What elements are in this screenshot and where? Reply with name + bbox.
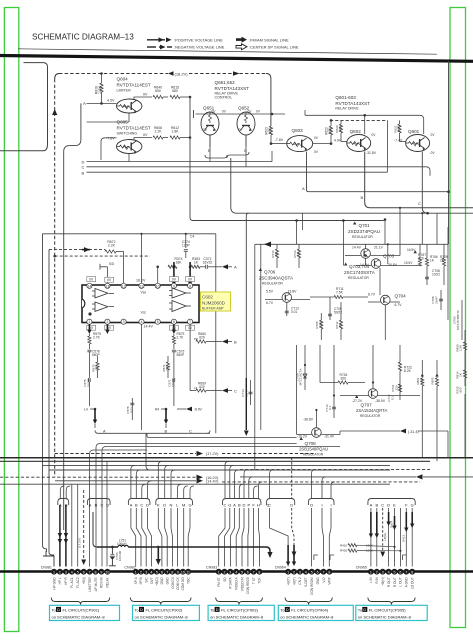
svg-text:2: 2 <box>224 570 226 574</box>
small corner stubs near CN965 <box>314 555 407 560</box>
svg-text:HP L: HP L <box>58 577 62 584</box>
svg-text:CN983: CN983 <box>206 565 217 569</box>
svg-text:C: C <box>189 429 192 434</box>
resistor R672 2.2K <box>105 240 124 267</box>
svg-text:A: A <box>370 503 373 508</box>
connector CN983 <box>206 565 262 594</box>
capacitor C713 0.1 <box>325 398 336 418</box>
svg-text:SD: SD <box>223 577 227 582</box>
svg-text:Q703,704: Q703,704 <box>349 264 370 269</box>
E D bracket under Q651/652 <box>205 135 473 436</box>
svg-text:0V: 0V <box>431 151 436 155</box>
feeder wires into letter bundle <box>90 444 340 567</box>
svg-text:DT06: DT06 <box>453 316 457 324</box>
svg-text:MTZJ16CTA: MTZJ16CTA <box>299 369 303 386</box>
small SD symbol above pin 13 <box>100 262 115 286</box>
svg-text:25/47: 25/47 <box>244 389 248 397</box>
right green border column <box>450 8 466 628</box>
svg-text:7: 7 <box>89 570 91 574</box>
svg-text:6: 6 <box>83 570 85 574</box>
transistor Q602 <box>334 129 377 155</box>
svg-text:on SCHEMATIC DIAGRAM–8: on SCHEMATIC DIAGRAM–8 <box>358 614 412 619</box>
svg-text:COM DI: COM DI <box>171 577 175 589</box>
svg-text:Q603: Q603 <box>292 128 304 133</box>
wire Q603 output to R622 <box>313 143 331 145</box>
bold arrows out of bottom pins <box>88 324 90 331</box>
resistor R571 680 <box>162 356 170 378</box>
svg-text:on SCHEMATIC DIAGRAM–8: on SCHEMATIC DIAGRAM–8 <box>135 614 189 619</box>
svg-text:C: C <box>224 503 227 508</box>
yellow highlight label C602 NJM2060D BUFFER AMP <box>201 292 231 311</box>
svg-text:4.5V: 4.5V <box>107 99 115 103</box>
bold arrow feeds to CN901 pins 2,3 <box>58 505 68 567</box>
right edge vertical from top line to regulator frame <box>448 61 450 244</box>
resistor R606 100K <box>95 74 104 104</box>
svg-text:7: 7 <box>253 570 255 574</box>
svg-text:-31.4V: -31.4V <box>324 435 335 439</box>
dashed bus (17.2V) <box>55 451 314 456</box>
svg-text:S-DET: S-DET <box>304 577 308 587</box>
resistors R714 R713 <box>271 244 301 268</box>
svg-text:I: I <box>321 503 322 508</box>
svg-text:Q604: Q604 <box>117 77 129 82</box>
svg-text:+B(H): +B(H) <box>383 533 387 541</box>
svg-text:2.7K: 2.7K <box>93 336 101 340</box>
svg-text:1: 1 <box>88 320 90 324</box>
svg-text:on SCHEMATIC DIAGRAM–8: on SCHEMATIC DIAGRAM–8 <box>52 614 106 619</box>
svg-text:D: D <box>243 503 246 508</box>
svg-text:REGULATOR: REGULATOR <box>352 235 373 239</box>
svg-text:7: 7 <box>166 570 168 574</box>
svg-text:RELAY DRIVE: RELAY DRIVE <box>335 107 359 111</box>
svg-text:1: 1 <box>218 570 220 574</box>
bus solid lines <box>0 461 430 470</box>
svg-text:CN964: CN964 <box>275 565 286 569</box>
svg-text:30.8V: 30.8V <box>388 263 398 267</box>
svg-text:O: O <box>310 503 313 508</box>
svg-text:MTZJ5.6BCTA: MTZJ5.6BCTA <box>456 310 460 330</box>
wire node B to right edge <box>365 152 473 208</box>
electrolytic cap C708 + rotated label INTLZ/MSCTA <box>431 290 462 340</box>
node letters A B C D E F G above CN965 <box>370 503 414 508</box>
Q604 emitter stub to ground bus <box>128 113 130 122</box>
svg-text:FL CIRCUIT(CP902): FL CIRCUIT(CP902) <box>146 607 183 612</box>
svg-text:E: E <box>393 503 396 508</box>
transistor Q707 <box>340 383 420 418</box>
svg-text:B: B <box>82 171 85 176</box>
svg-text:14.4V: 14.4V <box>352 246 362 250</box>
Q706 labels <box>259 268 294 286</box>
transistor Q701 <box>345 244 400 258</box>
svg-text:R805: R805 <box>431 377 435 384</box>
svg-text:S/C: S/C <box>145 577 149 583</box>
legend negative voltage line <box>147 45 225 50</box>
Q701 regulator labels <box>348 222 380 240</box>
svg-text:4.9V: 4.9V <box>334 138 342 142</box>
destination box CP904 <box>278 605 353 620</box>
svg-text:VIDEO IN: VIDEO IN <box>240 577 244 592</box>
svg-text:-8.9V: -8.9V <box>194 408 203 412</box>
rotated labels S414 S413 near CN965 <box>390 521 406 552</box>
svg-text:6: 6 <box>317 570 319 574</box>
svg-text:L IN: L IN <box>369 577 373 583</box>
dashed feed and drop at letter D of CN964 <box>292 458 297 557</box>
node group ABCD <box>130 503 149 508</box>
dashed negative line vertical trunk <box>54 79 56 477</box>
svg-text:7: 7 <box>323 570 325 574</box>
svg-text:FL CIRCUIT(CP905): FL CIRCUIT(CP905) <box>369 607 406 612</box>
svg-text:3: 3 <box>229 570 231 574</box>
destination box CP901 <box>50 605 120 620</box>
svg-text:R4: R4 <box>155 408 159 412</box>
dashed bus (16.2V) <box>0 475 219 480</box>
svg-text:A: A <box>302 186 305 191</box>
svg-text:620: 620 <box>199 336 205 340</box>
svg-text:6: 6 <box>161 570 163 574</box>
left green border column <box>4 8 18 632</box>
svg-text:4: 4 <box>235 570 237 574</box>
resistor R622 6.8K <box>325 120 333 143</box>
connector CN982 <box>124 565 191 590</box>
bus lines D C B from left <box>82 151 431 176</box>
group hat connectors <box>58 499 415 506</box>
node group CGABDPFH <box>224 503 260 508</box>
capacitor C709 50/22 <box>328 297 342 320</box>
svg-text:2: 2 <box>293 570 295 574</box>
svg-text:8: 8 <box>411 570 413 574</box>
svg-text:3: 3 <box>145 570 147 574</box>
svg-text:8: 8 <box>171 570 173 574</box>
svg-text:0V: 0V <box>143 93 148 97</box>
svg-text:CN 2: CN 2 <box>298 577 302 584</box>
svg-text:16.5V: 16.5V <box>407 248 416 252</box>
svg-text:SCHEMATIC DIAGRAM–13: SCHEMATIC DIAGRAM–13 <box>32 33 134 42</box>
svg-text:Q704: Q704 <box>395 294 407 299</box>
destination box CP905 <box>356 605 427 620</box>
capacitor C374 120P <box>140 233 194 258</box>
svg-text:0.1: 0.1 <box>328 406 332 411</box>
IC pins bottom row 1..7 <box>87 319 193 324</box>
svg-text:IF DATA: IF DATA <box>229 576 233 589</box>
drops CN965 letters to pins <box>371 508 412 567</box>
svg-text:0.01: 0.01 <box>291 310 297 314</box>
svg-text:4: 4 <box>71 570 73 574</box>
svg-text:(17.2V): (17.2V) <box>206 452 219 456</box>
svg-text:C: C <box>234 388 237 393</box>
svg-text:HP GND: HP GND <box>52 577 56 590</box>
svg-text:RVTDTA143XST: RVTDTA143XST <box>215 86 250 91</box>
svg-text:3: 3 <box>65 570 67 574</box>
transistor Q652 <box>237 106 261 136</box>
svg-text:16V22: 16V22 <box>203 261 213 265</box>
up arrow on dashed trunk <box>52 109 57 115</box>
svg-text:Q601: Q601 <box>408 129 420 134</box>
svg-text:6.7V: 6.7V <box>266 301 274 305</box>
svg-text:-7.6V: -7.6V <box>106 137 115 141</box>
bold arrows into CN964 pins 1,2 <box>287 545 289 563</box>
svg-text:OVT: OVT <box>150 577 154 584</box>
svg-text:82: 82 <box>338 323 342 327</box>
svg-text:A GND: A GND <box>405 577 409 588</box>
svg-text:8: 8 <box>95 570 97 574</box>
wire from top line going off page left <box>0 63 48 151</box>
svg-text:6.8K: 6.8K <box>338 126 342 132</box>
svg-text:2: 2 <box>140 570 142 574</box>
straight drops CN964 letters <box>270 508 331 567</box>
svg-text:AF MUTE: AF MUTE <box>94 577 98 591</box>
svg-text:3: 3 <box>123 320 125 324</box>
svg-text:TCK: TCK <box>258 576 262 583</box>
legend FM/AM signal line <box>236 37 289 43</box>
svg-text:G: G <box>228 503 231 508</box>
svg-text:RDS IN: RDS IN <box>100 577 104 589</box>
svg-text:A: A <box>130 503 133 508</box>
svg-text:5: 5 <box>394 570 396 574</box>
svg-text:L4: L4 <box>84 408 88 412</box>
svg-text:8: 8 <box>189 284 191 288</box>
svg-text:6.8K: 6.8K <box>328 127 332 134</box>
svg-text:B: B <box>375 503 378 508</box>
svg-text:2SA1534AQRTA: 2SA1534AQRTA <box>356 408 387 413</box>
svg-text:21.1V: 21.1V <box>374 246 384 250</box>
svg-text:(14.4V): (14.4V) <box>206 480 219 484</box>
Q605 output wire with resistors R608/R612 <box>134 126 191 140</box>
svg-text:2.2K: 2.2K <box>155 130 163 134</box>
thick full-width bus line <box>0 457 473 459</box>
svg-text:3: 3 <box>382 570 384 574</box>
legend positive voltage line <box>147 37 223 42</box>
svg-text:D: D <box>387 503 390 508</box>
vertical feeders on right regulators <box>295 207 437 340</box>
svg-text:on SCHEMATIC DIAGRAM–8: on SCHEMATIC DIAGRAM–8 <box>210 614 264 619</box>
svg-text:R410: R410 <box>340 543 348 547</box>
connector CN981 <box>41 565 111 592</box>
svg-text:D: D <box>286 608 289 612</box>
svg-text:9: 9 <box>173 284 175 288</box>
svg-text:9: 9 <box>100 570 102 574</box>
bold arrows on CN965 feed wires <box>370 512 372 535</box>
svg-text:6: 6 <box>247 570 249 574</box>
svg-text:Q651,652: Q651,652 <box>215 80 236 85</box>
svg-text:100K: 100K <box>98 85 102 94</box>
svg-text:H: H <box>257 503 260 508</box>
svg-text:39: 39 <box>274 252 278 256</box>
transistor Q651 <box>201 106 227 136</box>
svg-text:680: 680 <box>165 365 169 370</box>
svg-text:LIMITTER: LIMITTER <box>88 577 92 592</box>
svg-text:+B(I): +B(I) <box>82 577 86 584</box>
bold arrow from feed bus into CN982 pin 5 <box>157 547 159 559</box>
svg-text:Q602: Q602 <box>350 129 362 134</box>
wire node C joining bus <box>422 152 427 214</box>
svg-text:I: I <box>330 503 331 508</box>
svg-text:B: B <box>234 339 237 344</box>
svg-text:10/22: 10/22 <box>432 273 440 277</box>
svg-text:A: A <box>83 101 86 106</box>
bold arrows into top pins <box>173 262 175 283</box>
resistor R573 2.7K <box>172 332 184 349</box>
svg-text:11: 11 <box>186 570 190 574</box>
svg-text:B: B <box>238 503 241 508</box>
resistors R801 / R805 (triangle marked) <box>416 360 439 461</box>
svg-text:2SD2374PQAU: 2SD2374PQAU <box>348 229 380 234</box>
svg-text:5: 5 <box>241 570 243 574</box>
bus corner feed wires <box>60 461 335 498</box>
svg-text:-7.8V: -7.8V <box>275 138 284 142</box>
resistor R726 820 <box>320 373 365 384</box>
svg-text:VIDEO A: VIDEO A <box>235 576 239 590</box>
svg-text:G: G <box>411 503 414 508</box>
svg-text:5.5V: 5.5V <box>266 290 274 294</box>
svg-text:6.8K: 6.8K <box>268 127 272 134</box>
inductor L751 100uH + thick feed bus <box>93 512 273 558</box>
svg-text:820: 820 <box>341 376 347 380</box>
destination box CP903 <box>208 605 274 620</box>
transistor Q604 RVTDTA114EST LIMITER <box>117 77 151 114</box>
svg-text:K: K <box>157 503 160 508</box>
svg-text:2.2K: 2.2K <box>108 244 116 248</box>
svg-text:C: C <box>101 503 104 508</box>
svg-text::POSITIVE VOLTAGE LINE: :POSITIVE VOLTAGE LINE <box>174 38 223 43</box>
arrow on regulator top rail <box>264 242 271 247</box>
regulator block outer frame <box>255 227 448 470</box>
svg-text:560P: 560P <box>92 353 101 357</box>
svg-text:18K: 18K <box>175 261 182 265</box>
svg-text:3: 3 <box>299 570 301 574</box>
svg-text:D: D <box>146 503 149 508</box>
svg-text:-16.2V: -16.2V <box>297 435 308 439</box>
svg-text:6.8K: 6.8K <box>397 126 401 132</box>
svg-text:S/D: S/D <box>109 262 115 266</box>
svg-text:2SB1548PQAU: 2SB1548PQAU <box>299 447 328 452</box>
svg-text:2: 2 <box>376 570 378 574</box>
svg-text:(18.2V): (18.2V) <box>175 71 189 76</box>
svg-text:A: A <box>234 265 237 270</box>
capacitor CT13 0.01 <box>285 302 299 316</box>
dashed signal line above IC with arrow <box>49 247 150 257</box>
svg-text:1: 1 <box>135 570 137 574</box>
svg-text:R IN: R IN <box>375 577 379 584</box>
node group KDNLMG <box>157 503 192 508</box>
svg-text:(-31.4): (-31.4) <box>408 430 419 434</box>
svg-text:BUFFER AMP: BUFFER AMP <box>202 306 224 310</box>
svg-text:SP A: SP A <box>134 576 138 584</box>
svg-text:11: 11 <box>140 284 144 288</box>
svg-text:S413: S413 <box>402 535 406 542</box>
svg-text:C602: C602 <box>202 294 213 299</box>
svg-text:+B(H): +B(H) <box>381 577 385 585</box>
wire node A to regulator right column <box>307 152 449 192</box>
transistor Q605 RVTDTA114EST SWITCHING <box>101 120 151 161</box>
svg-text:RELAY: RELAY <box>106 576 110 587</box>
svg-text:6: 6 <box>173 320 175 324</box>
svg-text:B: B <box>95 503 98 508</box>
svg-text:COM CK: COM CK <box>176 576 180 590</box>
node letters C D O I I above CN964/965 <box>266 503 331 508</box>
svg-text:12: 12 <box>122 284 126 288</box>
bus line (14.4V) <box>55 478 420 483</box>
bus lower solid lines <box>0 470 473 485</box>
svg-text:C: C <box>381 503 384 508</box>
svg-text:P: P <box>247 503 250 508</box>
dashed 18.2V line across top <box>59 73 266 75</box>
svg-text:Q707: Q707 <box>361 403 373 408</box>
resistor R374 18K <box>168 257 183 268</box>
transistor Q708 <box>297 410 340 456</box>
svg-text:NJM2060D: NJM2060D <box>202 300 226 305</box>
svg-text:16.2V: 16.2V <box>136 279 146 283</box>
svg-text:Q706: Q706 <box>264 270 276 275</box>
svg-text:CN982: CN982 <box>124 565 135 569</box>
resistor R620 6.8K <box>335 120 347 141</box>
svg-text:on SCHEMATIC DIAGRAM–8: on SCHEMATIC DIAGRAM–8 <box>280 614 334 619</box>
svg-text:16V100: 16V100 <box>118 550 122 561</box>
svg-text:V/RF: V/RF <box>328 577 332 584</box>
diode DT08 MTZJ16CTA <box>295 365 307 390</box>
svg-text:8: 8 <box>258 570 260 574</box>
svg-text:FM ST: FM ST <box>217 577 221 587</box>
svg-text:650: 650 <box>155 89 161 93</box>
svg-text:6.7V: 6.7V <box>395 303 403 307</box>
svg-text:C: C <box>140 503 143 508</box>
svg-text:+B(T): +B(T) <box>286 577 290 585</box>
svg-text:2SC3940AQSTA: 2SC3940AQSTA <box>259 276 294 281</box>
resistors R708 1.5K / R712 82 <box>315 302 343 340</box>
capacitor C576 560P <box>87 350 100 363</box>
svg-text:D: D <box>140 608 143 612</box>
capacitor C766 16V100 on stub to ground <box>109 547 122 566</box>
feeder verticals into Q707/708 section <box>297 345 375 435</box>
svg-text:4: 4 <box>150 570 152 574</box>
capacitor C573 560P <box>172 350 185 363</box>
svg-text:SP B: SP B <box>139 577 143 584</box>
svg-text:GND: GND <box>316 577 320 585</box>
capacitor C712 0.1 <box>387 394 394 402</box>
plain wires to CN981 pins 4,5 <box>72 484 78 566</box>
svg-text:1: 1 <box>287 570 289 574</box>
svg-text:5: 5 <box>311 570 313 574</box>
svg-text:LO OUT: LO OUT <box>411 577 415 589</box>
svg-text:-7.4V: -7.4V <box>394 138 403 142</box>
svg-text:M: M <box>182 503 185 508</box>
svg-text:D: D <box>216 608 219 612</box>
svg-text:GND: GND <box>166 577 170 585</box>
svg-text:R420: R420 <box>340 549 348 553</box>
svg-text:A: A <box>89 503 92 508</box>
svg-text:1.8K: 1.8K <box>172 130 180 134</box>
svg-text:RVTDTA143XST: RVTDTA143XST <box>335 101 370 106</box>
svg-text:R OUT: R OUT <box>393 577 397 587</box>
svg-text:8.2K: 8.2K <box>404 369 412 373</box>
svg-text:B: B <box>135 503 138 508</box>
svg-text:C: C <box>82 165 85 170</box>
svg-text:L OUT: L OUT <box>399 577 403 586</box>
drop wires from relay transistors to nodes A B C <box>302 186 421 206</box>
connector CN964 <box>275 565 333 595</box>
svg-text:-31.8V: -31.8V <box>366 151 377 155</box>
svg-text:D: D <box>244 149 247 153</box>
capacitor C575 16V22 <box>83 362 90 406</box>
svg-text:0.01: 0.01 <box>129 407 133 413</box>
box wire around relay section <box>305 110 424 172</box>
ground stub near CN901 <box>43 551 54 567</box>
svg-text::CENTER SP SIGNAL LINE: :CENTER SP SIGNAL LINE <box>249 45 299 50</box>
right margin resistors R809 R814 R725 <box>448 330 467 458</box>
svg-text:2: 2 <box>106 320 108 324</box>
transistor Q601 <box>394 129 435 155</box>
svg-text:820: 820 <box>459 387 463 392</box>
svg-text:Vcc: Vcc <box>140 310 146 314</box>
